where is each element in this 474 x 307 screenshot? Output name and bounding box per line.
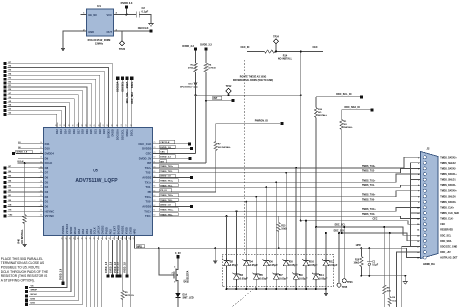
power AVDD_1.8 (row14) [158, 205, 191, 207]
wire INT vertical to chip [205, 101, 207, 163]
svg-text:D4: D4 [45, 185, 49, 189]
svg-text:GND: GND [88, 30, 94, 34]
node R3 (off-page) [3, 78, 6, 81]
U5 top pins [55, 123, 134, 141]
svg-text:I2S2: I2S2 [81, 228, 85, 234]
svg-text:86: 86 [99, 124, 101, 126]
svg-text:TMDS_DATA1+: TMDS_DATA1+ [440, 173, 457, 176]
svg-text:TP22: TP22 [119, 47, 126, 51]
svg-text:0.05pF: 0.05pF [309, 263, 318, 267]
svg-text:26: 26 [62, 237, 64, 239]
wire bus G3 [8, 110, 62, 122]
svg-text:RESERVED: RESERVED [440, 230, 453, 232]
svg-text:10: 10 [40, 142, 42, 144]
wire CEC row to pull-up [158, 152, 196, 154]
wire TMDS_TX1+ to J2 pin 4 [158, 174, 421, 182]
svg-text:D12: D12 [55, 129, 59, 134]
svg-text:0.05pF: 0.05pF [289, 263, 298, 267]
wire bus R5 [8, 71, 105, 122]
svg-text:D11: D11 [45, 142, 50, 146]
node VS2 (off-page) [3, 215, 6, 218]
svg-text:DCLK: DCLK [45, 161, 53, 165]
svg-text:12MHz: 12MHz [95, 42, 104, 46]
wire TMDS_TX0- (chip side) [160, 198, 179, 201]
svg-text:38: 38 [109, 237, 111, 239]
svg-text:HPD: HPD [137, 246, 142, 248]
svg-text:D3: D3 [45, 190, 49, 194]
svg-text:18: 18 [40, 181, 42, 183]
wire I2S1 (audio) [29, 240, 83, 304]
node HPD ground tap [214, 247, 216, 249]
wire VS (audio) [29, 240, 67, 287]
svg-text:0.1µF: 0.1µF [372, 265, 379, 267]
svg-text:DDCSCL: DDCSCL [121, 129, 125, 140]
svg-text:TMDS_TX1+: TMDS_TX1+ [362, 180, 376, 182]
svg-text:83: 83 [86, 124, 88, 126]
svg-text:MCLK: MCLK [73, 227, 77, 235]
svg-text:INSTALL: INSTALL [318, 114, 328, 117]
node INT (off-page) [231, 99, 234, 102]
svg-text:DDC_SCL: DDC_SCL [126, 91, 129, 103]
node B2 (off-page) [3, 191, 6, 194]
node CEC junction at pin13 branch [300, 220, 302, 222]
node junction DCLK/R40 [24, 162, 26, 164]
wire TMDS_TXC+ (chip side) [160, 208, 179, 211]
wire I2S0 (audio) [29, 240, 79, 300]
svg-text:BGVDD: BGVDD [117, 225, 121, 234]
svg-text:NO INSTALL: NO INSTALL [278, 58, 293, 61]
svg-text:28: 28 [70, 237, 72, 239]
wire row4 [18, 157, 39, 159]
svg-text:13: 13 [40, 157, 42, 159]
svg-text:DSDA: DSDA [125, 129, 129, 136]
svg-text:91: 91 [121, 124, 123, 126]
svg-text:14: 14 [40, 161, 42, 163]
node CECCLK (osc out) [150, 30, 153, 33]
resistor R7 NO INSTALL (PD pull) [215, 151, 217, 193]
svg-text:NO INSTALL: NO INSTALL [218, 146, 232, 149]
svg-text:70: 70 [153, 166, 155, 168]
svg-text:R_EXT: R_EXT [113, 226, 117, 235]
svg-text:DVDD1: DVDD1 [61, 225, 65, 234]
svg-text:81: 81 [77, 124, 79, 126]
svg-text:TMDS_SHLD1: TMDS_SHLD1 [440, 180, 456, 182]
diode D10 0.05pF [305, 255, 307, 259]
svg-text:67: 67 [153, 181, 155, 183]
ground (ESD rail) [324, 293, 329, 296]
svg-text:GE_NC: GE_NC [88, 13, 97, 17]
svg-text:25: 25 [40, 215, 42, 217]
svg-text:I2S1: I2S1 [85, 228, 89, 234]
wire INT row [158, 162, 207, 164]
svg-text:87: 87 [103, 124, 105, 126]
svg-text:HOTPLUG_DET: HOTPLUG_DET [440, 258, 458, 260]
node R0 (off-page) [3, 89, 6, 92]
node SPDIF (off-page) [25, 290, 28, 293]
wire DDC_SDA to J2 pin 16 [342, 233, 421, 241]
ground (HPD filter) [403, 282, 407, 285]
wire B1 (left) [8, 196, 39, 198]
svg-text:40: 40 [117, 237, 119, 239]
svg-text:PVDD: PVDD [105, 227, 109, 234]
svg-text:NO: NO [344, 124, 348, 126]
svg-text:PVDD_1.8: PVDD_1.8 [115, 261, 117, 272]
svg-text:VCC: VCC [107, 13, 113, 17]
svg-text:A STUFFING OPTION).: A STUFFING OPTION). [1, 279, 35, 283]
power PVDD_1.8 (bottom) [119, 240, 121, 274]
test point TP25 [338, 233, 340, 283]
power DVDD 3.3 (osc) [126, 8, 128, 15]
svg-text:61: 61 [153, 210, 155, 212]
wire HPD ground drop [214, 248, 216, 260]
svg-text:CEC: CEC [440, 224, 445, 226]
wire DDCSCL (top) [122, 80, 124, 123]
diode D5 0.05pF [255, 255, 257, 272]
svg-text:MCLK: MCLK [31, 294, 38, 296]
wire DDC_SCL ESD drop [315, 227, 317, 255]
svg-text:60: 60 [153, 215, 155, 217]
svg-text:ADV7511W_LQFP: ADV7511W_LQFP [75, 178, 118, 184]
svg-text:DVDD3: DVDD3 [106, 129, 110, 138]
node R5 (off-page) [3, 70, 6, 73]
node TMDS_TX2- drop junction [285, 172, 287, 174]
svg-text:AVDD1: AVDD1 [121, 225, 125, 234]
node R6 (off-page) [3, 66, 6, 69]
wire TMDS_TXC+ ESD drop [235, 211, 237, 254]
wire Q1 source to D14 [177, 284, 179, 293]
power DVDD_3.3 rail 1 [194, 48, 197, 51]
svg-text:D13: D13 [59, 129, 63, 134]
svg-text:PD_IO: PD_IO [160, 190, 167, 192]
svg-text:PWRON_IO: PWRON_IO [255, 119, 268, 122]
svg-text:I2S3: I2S3 [77, 228, 81, 234]
svg-text:32: 32 [85, 237, 87, 239]
svg-text:AVDD_1.8: AVDD_1.8 [124, 261, 127, 272]
svg-text:DFLS1150-7: DFLS1150-7 [180, 87, 193, 89]
svg-text:TX0-: TX0- [145, 200, 151, 204]
svg-text:HDMI_RA: HDMI_RA [423, 262, 435, 266]
svg-text:C2: C2 [142, 6, 146, 10]
node TMDS_TX0+ drop junction [255, 196, 257, 198]
svg-text:36: 36 [101, 237, 103, 239]
svg-text:TX2-: TX2- [145, 171, 151, 175]
wire bottom pin 10 off-page [97, 240, 99, 307]
svg-text:0.05pF: 0.05pF [319, 276, 328, 280]
wire TMDS_TX1+ ESD drop [275, 182, 277, 254]
svg-text:AVDD2: AVDD2 [142, 176, 152, 180]
svg-text:D22: D22 [98, 129, 102, 134]
power PVDD_1.8 (bottom) [116, 240, 118, 274]
svg-text:0.05pF: 0.05pF [250, 263, 259, 267]
capacitor C2 0.1uF [135, 12, 137, 18]
svg-text:35: 35 [97, 237, 99, 239]
svg-text:LRCLK: LRCLK [97, 225, 101, 234]
svg-text:15: 15 [40, 166, 42, 168]
svg-text:D1: D1 [45, 200, 49, 204]
node B5 (off-page) [3, 176, 6, 179]
svg-text:DVDD_1.8: DVDD_1.8 [160, 147, 171, 149]
svg-text:HPD: HPD [356, 245, 361, 247]
svg-text:DVDD: DVDD [111, 129, 115, 136]
svg-text:31: 31 [81, 237, 83, 239]
wire DE (left) [8, 205, 39, 207]
svg-text:16: 16 [40, 171, 42, 173]
svg-text:65: 65 [153, 190, 155, 192]
svg-text:12: 12 [40, 152, 42, 154]
svg-text:0.05pF: 0.05pF [230, 263, 239, 267]
svg-text:D16: D16 [72, 129, 76, 134]
svg-text:DVDD_3V: DVDD_3V [139, 156, 152, 160]
power DVDD_1.8 (bottom) [112, 240, 114, 274]
power AVDD_1.8 (row8) [158, 177, 191, 179]
wire TMDS_TX2+ (chip side) [160, 164, 179, 167]
IC U5 ADV7511W_LQFP [44, 128, 153, 236]
wire Q1 gate [159, 248, 171, 275]
svg-text:93: 93 [130, 124, 132, 126]
svg-text:TX1-: TX1- [145, 185, 151, 189]
node DDC_SCL/R8 junction [383, 226, 385, 228]
svg-text:D8: D8 [45, 166, 49, 170]
node R2 (off-page) [3, 82, 6, 85]
wire B0 (left) [8, 201, 39, 203]
J2 pin labels [440, 156, 459, 259]
svg-text:TX2+: TX2+ [145, 166, 152, 170]
svg-text:DVDD_3.3: DVDD_3.3 [200, 44, 212, 47]
wire INT net [205, 100, 207, 102]
svg-text:17: 17 [40, 176, 42, 178]
svg-text:VSYNC: VSYNC [45, 214, 54, 218]
svg-text:TMDS_CLK+: TMDS_CLK+ [440, 207, 455, 209]
svg-text:SMT_LED: SMT_LED [183, 297, 194, 300]
resistor R5 887 1% [122, 240, 124, 290]
svg-text:I2S1: I2S1 [31, 302, 36, 304]
wire TMDS_TXC- ESD drop [226, 216, 228, 254]
svg-text:72: 72 [153, 157, 155, 159]
svg-text:TMDS_TX1-: TMDS_TX1- [362, 185, 375, 187]
power DVDD_3.3 (right row4) [158, 157, 189, 159]
wire bus R0 [8, 91, 83, 123]
wire CEC pull-up node A [196, 94, 301, 96]
diode D2 0.05pF [226, 255, 228, 259]
wire U1 OUT / net CECCLK [114, 30, 150, 32]
resistor R14 NO INSTALL [265, 50, 278, 53]
wire TMDS_TXC- to J2 pin 12 [158, 216, 421, 218]
ground (U1 GND) [61, 48, 66, 51]
svg-text:84: 84 [90, 124, 92, 126]
resistor R10 10k [360, 248, 362, 256]
wire B3 (left) [8, 186, 39, 188]
wire CEC to J2 pin 13 [301, 221, 421, 225]
diode D8 0.05pF [285, 255, 287, 259]
node R1 (off-page) [3, 86, 6, 89]
svg-text:D14: D14 [63, 129, 67, 134]
node TMDS_TX1+ drop junction [275, 181, 277, 183]
node HPD/C1 junction [368, 247, 370, 249]
svg-text:0.05pF: 0.05pF [269, 263, 278, 267]
svg-text:CECCLK: CECCLK [138, 26, 149, 30]
node B0 (off-page) [3, 200, 6, 203]
wire TMDS_TX2- (chip side) [160, 169, 179, 172]
power DVDD_1.8 (bottom pin 1) [62, 240, 64, 282]
wire bus R2 [8, 83, 92, 123]
wire bottom pin 18 off-page [130, 240, 132, 307]
wire HPD net [134, 240, 406, 248]
svg-text:TXC-: TXC- [145, 214, 152, 218]
wire TMDS_TX2+ to J2 pin 1 [158, 157, 421, 168]
wire HPD filter bottom rail [361, 275, 405, 277]
wire CEC vertical (to J2) [300, 52, 302, 221]
svg-text:D5: D5 [45, 180, 49, 184]
svg-text:D19: D19 [85, 129, 89, 134]
svg-text:SPDIF: SPDIF [31, 290, 38, 292]
svg-text:D18: D18 [81, 129, 85, 134]
wire bus R7 [8, 64, 113, 123]
svg-text:TMDS_TXC+: TMDS_TXC+ [362, 209, 376, 211]
svg-text:D2: D2 [45, 195, 49, 199]
wire CEC stub [284, 51, 323, 53]
wire B4 (left) [8, 181, 39, 183]
svg-text:74: 74 [153, 147, 155, 149]
svg-text:R10: R10 [355, 259, 360, 261]
wire B6 (left) [8, 172, 39, 174]
svg-text:AVDD_1.8: AVDD_1.8 [160, 204, 171, 207]
wire G1 (row1) [18, 143, 39, 145]
svg-text:CEC_IO: CEC_IO [241, 46, 250, 49]
ground (C2) [149, 24, 153, 27]
svg-text:CEC: CEC [160, 152, 165, 154]
svg-text:D10: D10 [45, 147, 51, 151]
node G2 (off-page) [3, 113, 6, 116]
svg-text:SCLK: SCLK [93, 227, 97, 234]
svg-text:DVDD_1.8: DVDD_1.8 [61, 268, 63, 280]
wire PWRON_IO [216, 123, 280, 125]
svg-text:OUT: OUT [107, 30, 113, 34]
svg-text:INT: INT [213, 97, 217, 100]
svg-text:TMDS_TX2-: TMDS_TX2- [362, 171, 375, 173]
capacitor C1 0.1uF [368, 248, 370, 262]
svg-text:TP26: TP26 [347, 282, 353, 284]
node TMDS_TX1- drop junction [265, 186, 267, 188]
wire TMDS_TX0- to J2 pin 9 [158, 201, 421, 203]
svg-text:TMDS_DATA2+: TMDS_DATA2+ [440, 156, 457, 159]
wire TMDS_TX0+ to J2 pin 7 [158, 191, 421, 197]
wire audio pins off-page [86, 240, 88, 307]
svg-text:DVDD_1.8: DVDD_1.8 [106, 261, 108, 273]
svg-text:D9: D9 [45, 156, 49, 160]
wire SPDIF (audio) [29, 240, 71, 291]
svg-text:89: 89 [111, 124, 113, 126]
test point TP26 [343, 227, 345, 279]
svg-text:CVDD: CVDD [128, 227, 132, 234]
svg-text:DVDD_3.3: DVDD_3.3 [160, 156, 171, 158]
node G4 (off-page) [3, 105, 6, 108]
svg-text:23: 23 [40, 205, 42, 207]
svg-text:TMDS_SHLD2: TMDS_SHLD2 [440, 163, 456, 165]
svg-text:SPDIF: SPDIF [69, 226, 73, 234]
wire J2 pin 18 (+5V) [397, 252, 421, 307]
svg-text:XVDD: XVDD [125, 227, 129, 234]
svg-text:DVDD_1.8: DVDD_1.8 [17, 152, 28, 154]
wire bottom pin R_EXT to R5 [101, 240, 103, 307]
svg-text:82: 82 [81, 124, 83, 126]
wire TMDS_TX1- ESD drop [265, 187, 267, 254]
svg-text:33: 33 [89, 237, 91, 239]
svg-text:U5: U5 [93, 169, 98, 173]
svg-text:TXC+: TXC+ [144, 209, 152, 213]
svg-text:DVDD_1.8: DVDD_1.8 [110, 261, 112, 273]
node I2S0 (off-page) [25, 299, 28, 302]
svg-text:TMDS_DATA2-: TMDS_DATA2- [440, 167, 456, 170]
wire HS (left) [8, 210, 39, 212]
wire J2 shield pins [411, 163, 421, 247]
svg-text:29: 29 [74, 237, 76, 239]
dashed guide line (ESD box note) [232, 287, 256, 307]
svg-text:PD2: PD2 [109, 229, 113, 235]
wire DCLK (row5) [18, 162, 39, 164]
svg-text:CEC: CEC [373, 218, 378, 220]
svg-text:3_3V: 3_3V [175, 252, 181, 255]
svg-text:D6: D6 [45, 176, 49, 180]
svg-text:43: 43 [129, 237, 131, 239]
svg-text:TMDS_CLK-: TMDS_CLK- [440, 219, 454, 221]
resistor R8 2k [383, 227, 385, 285]
svg-text:D0: D0 [45, 204, 49, 208]
svg-text:I2S0: I2S0 [89, 228, 93, 234]
svg-text:D15: D15 [68, 129, 72, 134]
diode D13 DFLS1150-7 [194, 83, 198, 88]
node MCLK (off-page) [25, 295, 28, 298]
svg-text:887Ω 1%: 887Ω 1% [125, 295, 134, 297]
svg-text:DVDD_3.3: DVDD_3.3 [182, 45, 194, 48]
svg-text:DDC/CEC_GND: DDC/CEC_GND [440, 246, 457, 248]
node DSCL (off-page) [130, 77, 133, 80]
test point TP22 [121, 31, 123, 41]
transistor Q1 BSS123TA [171, 267, 190, 284]
svg-text:TMDS_DATA0-: TMDS_DATA0- [440, 201, 456, 204]
svg-text:DDC_SDA: DDC_SDA [131, 92, 134, 104]
svg-text:88: 88 [107, 124, 109, 126]
svg-text:K50-3C1512_000M: K50-3C1512_000M [88, 38, 111, 42]
svg-text:DSCL: DSCL [131, 81, 134, 88]
svg-text:DSCL: DSCL [130, 129, 134, 136]
svg-text:90: 90 [116, 124, 118, 126]
power DVDD_3.3 rail 2 [205, 48, 208, 51]
svg-text:10kΩ: 10kΩ [354, 263, 360, 265]
resistor R9 1k [389, 233, 391, 297]
wire J2 pin 17 to ground [402, 246, 411, 307]
wire bus G7 [8, 95, 79, 123]
svg-text:75: 75 [153, 142, 155, 144]
svg-text:DDC_SDA_IO: DDC_SDA_IO [345, 106, 361, 109]
svg-text:AVDD0: AVDD0 [142, 204, 152, 208]
svg-text:DDCSCL: DDCSCL [122, 81, 125, 92]
wire TMDS_TX1+ (chip side) [160, 179, 179, 182]
node VS (off-page) [25, 286, 28, 289]
wire B5 (left) [8, 177, 39, 179]
svg-text:64: 64 [153, 195, 155, 197]
svg-text:27: 27 [66, 237, 68, 239]
svg-text:71: 71 [153, 161, 155, 163]
resistor R40 NO INSTALL (DCLK term) [24, 163, 26, 214]
svg-text:HSYNC: HSYNC [45, 209, 55, 213]
wire DDCSDA (top) [117, 80, 119, 123]
wire TMDS_TX2- to J2 pin 3 [158, 168, 421, 172]
svg-text:I2S0: I2S0 [31, 298, 36, 300]
resistor R1 NO INSTALL (DDC_SDA) [341, 110, 343, 120]
wire bus G6 [8, 99, 75, 123]
wire DDC_SDA ESD drop (via D12 column) [325, 233, 327, 255]
diode D9 0.05pF [295, 255, 297, 272]
